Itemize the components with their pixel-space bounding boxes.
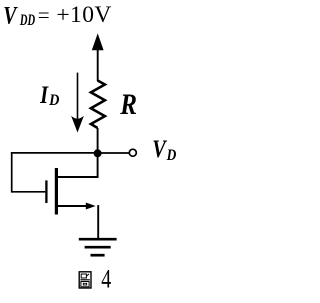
current arrow ID (shaft) <box>77 73 79 124</box>
svg-text:=: = <box>38 3 50 27</box>
VDD supply arrow (arrowhead) <box>92 33 104 50</box>
label ID <box>39 81 59 109</box>
source arrowhead (points right, NMOS) <box>86 203 96 210</box>
caption: character 圖 (drawn) <box>79 272 91 288</box>
svg-text:R: R <box>119 88 137 120</box>
wire: supply arrow shaft down to resistor top <box>97 48 99 81</box>
ground <box>79 239 117 255</box>
svg-text:V: V <box>3 1 18 29</box>
svg-text:+10V: +10V <box>56 2 111 28</box>
resistor R (zigzag) <box>91 81 105 129</box>
svg-text:DD: DD <box>19 11 35 29</box>
svg-text:4: 4 <box>101 265 111 294</box>
current arrow ID (concave arrowhead) <box>71 116 84 133</box>
gate bar <box>45 180 47 203</box>
svg-text:V: V <box>152 135 167 162</box>
drain lead <box>57 153 98 177</box>
node: drain junction dot <box>94 149 102 157</box>
svg-text:D: D <box>48 92 59 109</box>
transistor Q1 (NMOS, simplified symbol) <box>46 153 97 215</box>
wire: node to output terminal <box>98 152 129 154</box>
source lead <box>57 205 89 207</box>
wire: source down to ground <box>97 205 99 239</box>
net VDD label "VDD= +10V" <box>3 1 111 29</box>
wire: feedback top horizontal (node to left) <box>11 152 98 154</box>
channel bar <box>55 168 58 215</box>
wire: resistor bottom to drain node <box>97 128 99 153</box>
wire: gate lead horizontal <box>12 191 46 193</box>
label VD <box>152 135 176 164</box>
terminal VD (open circle) <box>129 149 136 156</box>
svg-text:I: I <box>39 81 49 108</box>
wire: feedback left vertical <box>11 152 13 193</box>
svg-text:D: D <box>166 147 177 164</box>
